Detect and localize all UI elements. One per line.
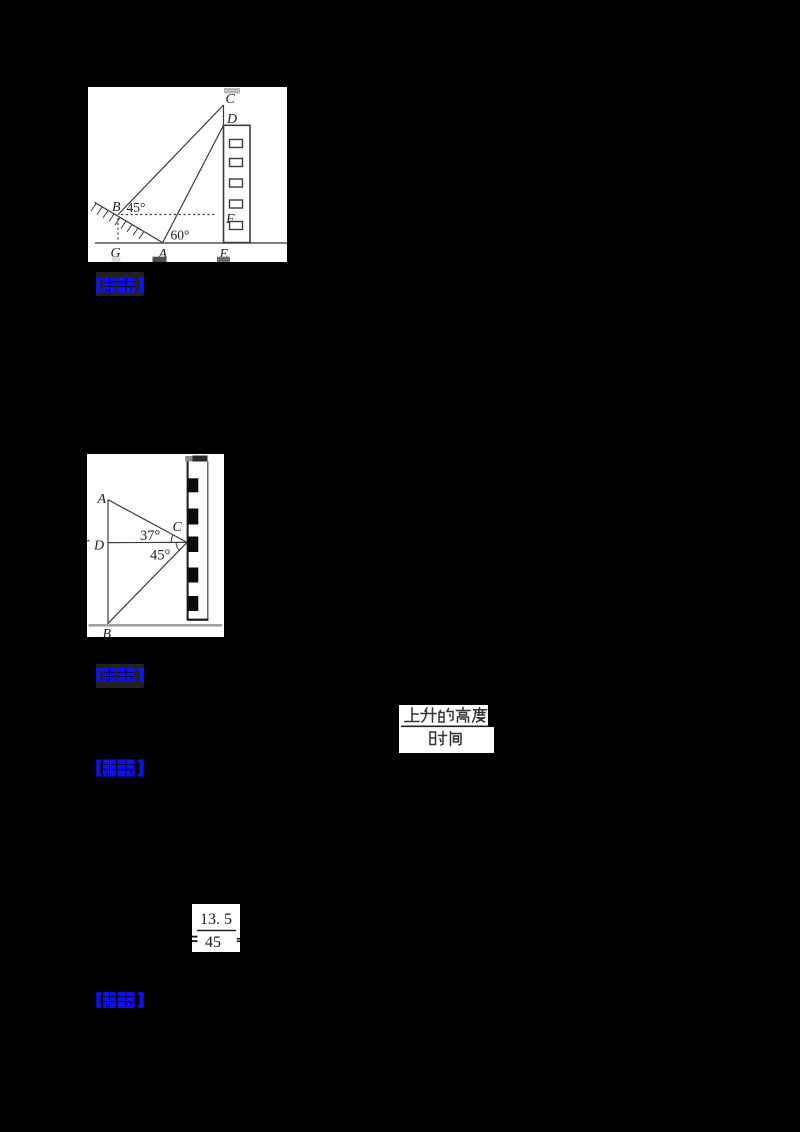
svg-text:45: 45 bbox=[205, 934, 221, 951]
svg-text:45°: 45° bbox=[150, 548, 171, 564]
svg-text:37°: 37° bbox=[140, 528, 161, 544]
svg-text:45°: 45° bbox=[127, 200, 146, 215]
svg-text:13. 5: 13. 5 bbox=[200, 911, 232, 928]
svg-text:B: B bbox=[103, 627, 112, 637]
svg-text:A: A bbox=[97, 492, 107, 507]
svg-text:D: D bbox=[226, 112, 237, 127]
svg-text:C: C bbox=[173, 520, 183, 535]
svg-text:F: F bbox=[225, 212, 235, 227]
svg-text:C: C bbox=[226, 92, 236, 107]
svg-text:D: D bbox=[93, 539, 104, 554]
svg-text:B: B bbox=[112, 200, 121, 215]
svg-text:60°: 60° bbox=[171, 228, 190, 243]
